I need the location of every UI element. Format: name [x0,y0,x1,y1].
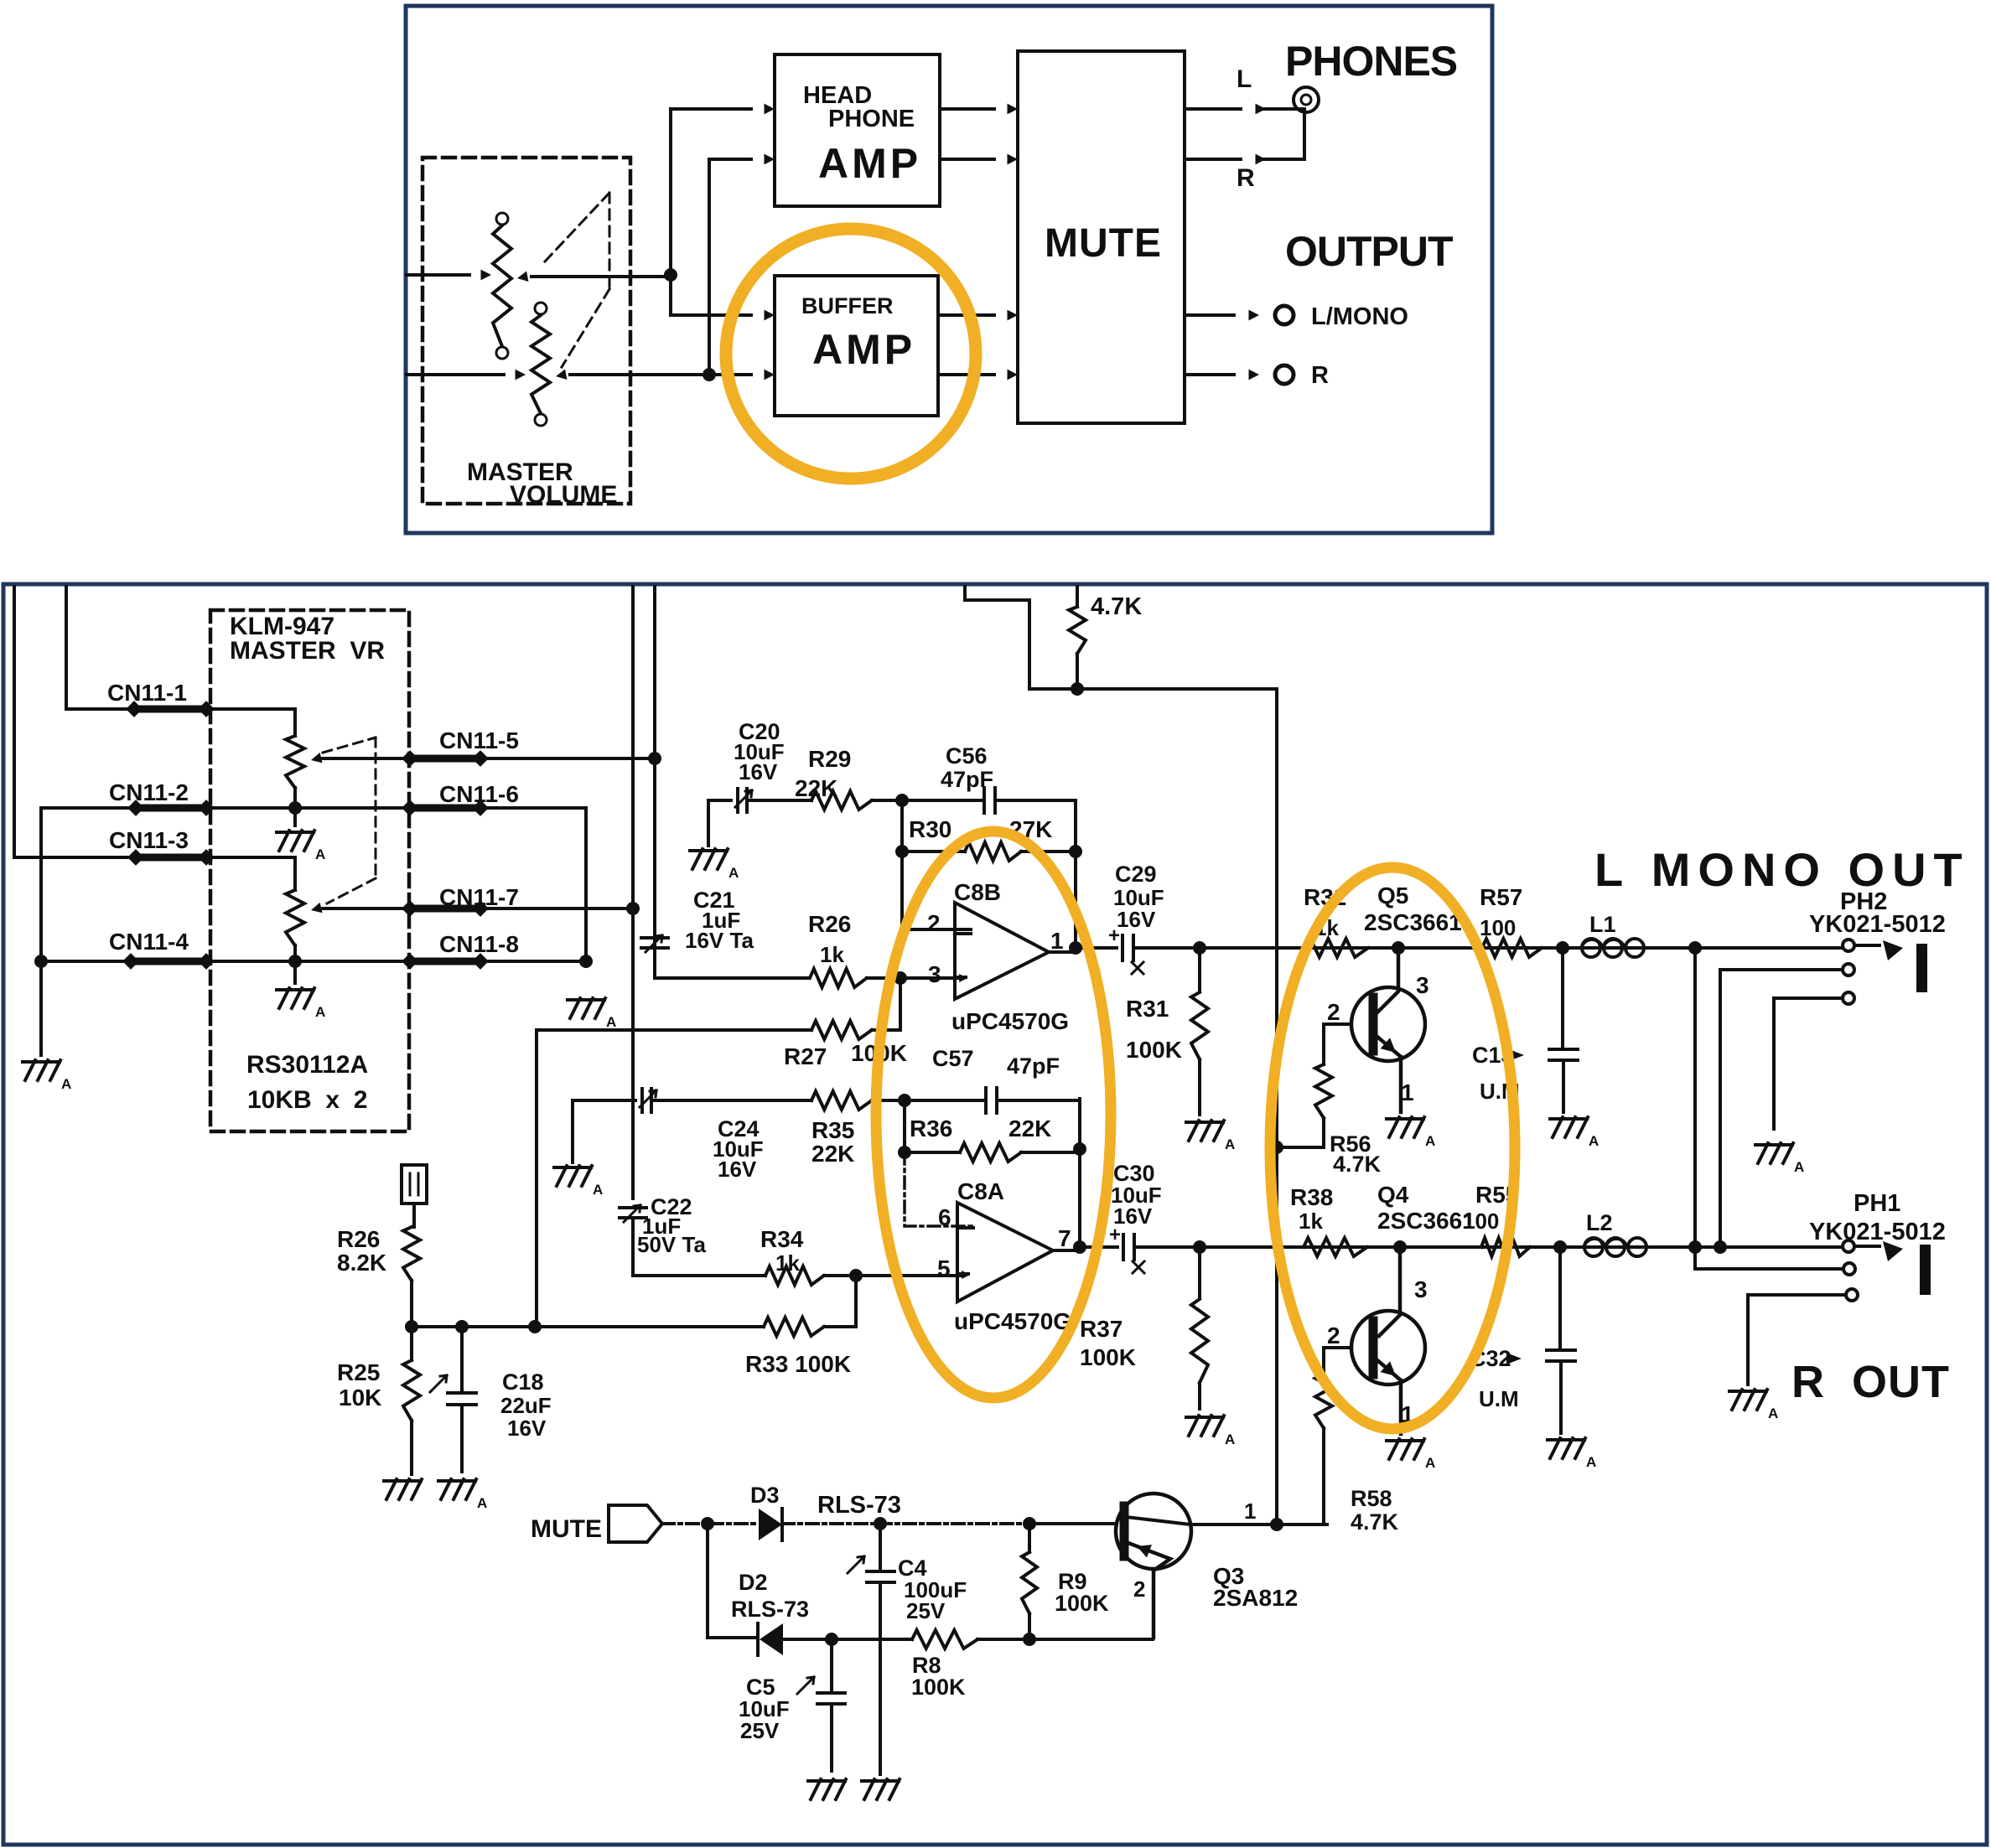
svg-text:2: 2 [927,910,941,936]
svg-text:PH1: PH1 [1854,1190,1900,1217]
svg-text:CN11-8: CN11-8 [439,931,519,957]
svg-text:RLS-73: RLS-73 [731,1597,809,1622]
svg-text:50V Ta: 50V Ta [637,1232,706,1257]
svg-text:25V: 25V [906,1598,946,1623]
svg-text:uPC4570G: uPC4570G [951,1008,1069,1034]
svg-text:AMP: AMP [812,326,915,373]
svg-text:CN11-2: CN11-2 [109,779,189,805]
svg-text:10K: 10K [339,1385,381,1411]
svg-text:uPC4570G: uPC4570G [954,1308,1071,1334]
svg-text:R31: R31 [1126,996,1169,1022]
svg-text:L2: L2 [1586,1210,1613,1235]
svg-text:R30: R30 [909,816,951,842]
svg-text:L MONO OUT: L MONO OUT [1594,843,1970,896]
svg-text:R27: R27 [784,1043,827,1069]
svg-text:3: 3 [1414,1276,1428,1302]
svg-text:100K: 100K [1126,1037,1182,1063]
svg-text:R57: R57 [1480,884,1522,910]
svg-text:10KB x 2: 10KB x 2 [247,1086,367,1114]
svg-text:16V: 16V [1117,907,1156,932]
svg-text:16V Ta: 16V Ta [685,928,754,953]
svg-text:6: 6 [938,1204,951,1230]
svg-text:C29: C29 [1115,862,1157,887]
svg-text:100K: 100K [1055,1591,1109,1616]
svg-text:3: 3 [928,961,941,987]
svg-text:3: 3 [1416,972,1429,998]
svg-text:2: 2 [1327,1323,1340,1348]
svg-text:R37: R37 [1080,1316,1123,1342]
svg-text:C57: C57 [932,1046,974,1071]
svg-text:YK021-5012: YK021-5012 [1809,911,1946,938]
svg-text:16V: 16V [739,759,778,784]
svg-text:1: 1 [1050,928,1064,954]
svg-text:CN11-1: CN11-1 [107,680,187,706]
svg-text:R25: R25 [337,1359,380,1385]
svg-text:R38: R38 [1290,1184,1333,1210]
svg-text:5: 5 [937,1255,951,1281]
svg-text:7: 7 [1058,1225,1071,1251]
svg-text:VOLUME: VOLUME [510,481,617,509]
svg-text:CN11-5: CN11-5 [439,727,519,753]
svg-text:CN11-4: CN11-4 [109,929,189,955]
svg-text:R: R [1237,164,1255,192]
svg-text:2SA812: 2SA812 [1213,1585,1298,1611]
svg-text:1k: 1k [775,1250,800,1276]
svg-text:22uF: 22uF [500,1393,552,1418]
svg-text:22K: 22K [811,1141,854,1167]
svg-text:1: 1 [1244,1499,1256,1524]
svg-text:R36: R36 [910,1116,952,1141]
svg-text:Q5: Q5 [1377,883,1408,908]
svg-text:R29: R29 [808,746,851,772]
svg-text:1: 1 [1401,1079,1414,1105]
svg-text:PHONES: PHONES [1285,38,1457,85]
svg-text:U.M: U.M [1479,1386,1519,1411]
svg-text:D2: D2 [739,1570,768,1595]
svg-text:4.7K: 4.7K [1351,1509,1399,1535]
svg-text:RS30112A: RS30112A [246,1051,368,1079]
svg-text:C8B: C8B [954,879,1001,905]
svg-text:C56: C56 [946,743,988,769]
svg-text:Q4: Q4 [1377,1182,1409,1208]
svg-text:D3: D3 [750,1483,780,1508]
svg-text:2SC3661: 2SC3661 [1377,1208,1475,1234]
svg-text:25V: 25V [740,1718,780,1743]
svg-text:L: L [1237,65,1252,93]
svg-text:2: 2 [1133,1576,1145,1602]
svg-text:L1: L1 [1589,912,1616,937]
svg-text:8.2K: 8.2K [337,1250,386,1276]
svg-text:C8A: C8A [957,1178,1004,1204]
svg-text:R26: R26 [808,911,851,937]
svg-text:R: R [1311,362,1329,389]
svg-text:MASTER VR: MASTER VR [230,637,385,665]
svg-text:L/MONO: L/MONO [1311,303,1408,330]
svg-text:22K: 22K [1008,1116,1051,1141]
svg-text:MUTE: MUTE [531,1515,602,1543]
svg-text:R33 100K: R33 100K [745,1351,851,1377]
svg-text:R26: R26 [337,1226,380,1252]
svg-text:YK021-5012: YK021-5012 [1809,1219,1946,1245]
svg-text:R34: R34 [760,1226,804,1252]
svg-text:2SC3661: 2SC3661 [1364,909,1462,935]
svg-text:16V: 16V [507,1416,547,1441]
svg-text:100: 100 [1480,915,1516,940]
svg-text:MUTE: MUTE [1045,221,1162,266]
svg-text:CN11-3: CN11-3 [109,827,189,853]
svg-text:RLS-73: RLS-73 [817,1492,901,1519]
svg-text:R OUT: R OUT [1791,1357,1950,1407]
svg-text:PHONE: PHONE [828,106,915,132]
svg-text:16V: 16V [1113,1204,1153,1229]
svg-text:4.7K: 4.7K [1091,593,1142,620]
svg-text:C18: C18 [502,1369,544,1395]
svg-text:47pF: 47pF [1007,1053,1060,1079]
svg-text:100K: 100K [1080,1344,1136,1370]
svg-text:1k: 1k [820,942,844,967]
svg-text:4.7K: 4.7K [1333,1152,1382,1177]
svg-text:2: 2 [1327,999,1340,1025]
svg-text:47pF: 47pF [941,767,993,792]
svg-text:16V: 16V [718,1157,757,1182]
svg-text:100K: 100K [911,1675,966,1700]
svg-text:R58: R58 [1351,1486,1392,1511]
svg-text:AMP: AMP [818,140,921,187]
svg-text:R35: R35 [811,1117,854,1143]
svg-text:BUFFER: BUFFER [801,293,894,318]
svg-text:1k: 1k [1299,1209,1323,1234]
svg-text:OUTPUT: OUTPUT [1285,228,1453,275]
